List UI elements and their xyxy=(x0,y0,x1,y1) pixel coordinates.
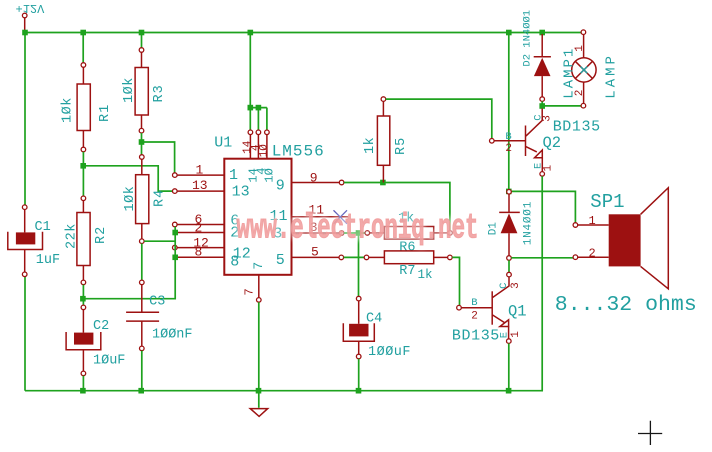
wire R4 bottom to C3 xyxy=(141,244,143,281)
transistor Q2 BD135 xyxy=(490,109,601,177)
pin 11 right (n.c.) xyxy=(270,202,349,225)
wire IC top supply feed xyxy=(250,33,267,131)
diode D2 1N4001 xyxy=(521,10,551,102)
svg-text:8: 8 xyxy=(195,245,203,260)
pin 8 left xyxy=(175,245,240,271)
pin 3 right xyxy=(273,220,344,243)
svg-text:R4: R4 xyxy=(153,189,168,207)
junction D1 top node xyxy=(506,189,512,195)
svg-text:SP1: SP1 xyxy=(590,191,624,213)
svg-text:13: 13 xyxy=(232,183,250,200)
svg-text:13: 13 xyxy=(192,178,208,193)
wire R2/C2 node to IC pins 2-6-8-12 vertical xyxy=(83,259,175,299)
wire trigger/threshold vertical pins 6-2-12-8 xyxy=(174,227,176,259)
wire R5 top to Q2 base xyxy=(386,99,492,138)
capacitor C3 xyxy=(126,280,192,351)
svg-text:Q2: Q2 xyxy=(543,134,562,152)
svg-text:1: 1 xyxy=(196,162,204,177)
svg-text:22k: 22k xyxy=(65,223,80,249)
junction top rail at R3 xyxy=(139,30,145,36)
wire Q2 collector node to lamp pin 2 xyxy=(542,105,581,107)
svg-text:3: 3 xyxy=(510,282,522,289)
junction top rail at IC feed xyxy=(248,30,254,36)
svg-text:LM556: LM556 xyxy=(272,142,325,160)
speaker SP1 xyxy=(555,188,697,317)
wire C4 bottom to rail xyxy=(358,359,360,391)
resistor R2 xyxy=(65,196,109,285)
diode D1 1N4001 xyxy=(487,190,534,261)
svg-text:7: 7 xyxy=(251,262,266,270)
junction Q2 collector node xyxy=(539,103,545,109)
junction top rail at R1 xyxy=(80,30,86,36)
svg-text:2: 2 xyxy=(505,143,512,155)
wire R3 bottom to R4 top xyxy=(141,133,143,155)
junction R1/R2 node xyxy=(80,163,86,169)
pin 10 top xyxy=(259,130,277,183)
wire Q2 emitter down to rail corner xyxy=(541,176,543,391)
pin 12 left xyxy=(173,235,251,262)
svg-text:BD135: BD135 xyxy=(452,328,500,345)
resistor R1 xyxy=(61,33,114,152)
svg-text:D1: D1 xyxy=(487,222,499,236)
svg-text:BD135: BD135 xyxy=(553,119,601,136)
transistor Q1 BD135 xyxy=(452,272,527,344)
wire D1 bottom to Q1 collector xyxy=(508,260,510,272)
resistor R6 xyxy=(365,211,452,255)
op-amp U1 LM556 IC body xyxy=(214,135,325,275)
capacitor C4 xyxy=(343,296,411,360)
svg-text:www.electroniq.net: www.electroniq.net xyxy=(237,209,479,249)
wire R2 bottom to C2 xyxy=(82,285,84,305)
pin 13 left xyxy=(173,178,250,200)
pin 2 left xyxy=(175,220,240,241)
junction pin 2 xyxy=(172,230,178,236)
junction bottom rail Q1 xyxy=(506,388,512,394)
junction pin 8 xyxy=(172,255,178,261)
svg-text:2: 2 xyxy=(195,220,203,235)
pin 7 bottom xyxy=(243,262,266,302)
wire bottom ground rail xyxy=(25,390,543,392)
wire C3 bottom to rail xyxy=(141,351,143,391)
svg-text:8: 8 xyxy=(230,253,239,270)
svg-text:LAMP: LAMP xyxy=(603,53,619,99)
wire D1 node to speaker pin 1 xyxy=(509,191,576,222)
junction R2/C2 node xyxy=(80,296,86,302)
svg-text:2: 2 xyxy=(471,310,478,322)
pin 9 right xyxy=(276,170,344,194)
svg-text:1Ø: 1Ø xyxy=(263,168,277,182)
svg-text:B: B xyxy=(505,131,511,143)
svg-text:9: 9 xyxy=(276,177,285,194)
svg-text:1ØuF: 1ØuF xyxy=(93,353,125,368)
lamp LAMP1 xyxy=(561,30,619,108)
no-connect X marker pin 11 xyxy=(334,210,348,224)
svg-text:C2: C2 xyxy=(93,319,109,334)
pin 14 top xyxy=(242,130,261,183)
svg-text:1Øk: 1Øk xyxy=(122,77,137,103)
svg-text:1: 1 xyxy=(229,167,238,184)
svg-text:C: C xyxy=(498,283,510,289)
svg-text:1: 1 xyxy=(510,331,522,338)
svg-text:1Øk: 1Øk xyxy=(61,97,76,123)
svg-text:1uF: 1uF xyxy=(36,253,60,268)
svg-text:1k: 1k xyxy=(418,268,433,282)
resistor R4 xyxy=(123,155,168,244)
junction pin3/C4 xyxy=(356,230,362,236)
capacitor C1 xyxy=(8,205,60,277)
wire top +12V rail xyxy=(25,32,581,34)
wire Q1 emitter to rail xyxy=(508,343,510,390)
wire C2 bottom to rail xyxy=(82,376,84,391)
ground symbol xyxy=(250,394,268,417)
wire left vertical rail upper (to C1) xyxy=(24,33,26,206)
svg-text:5: 5 xyxy=(276,252,285,269)
svg-text:8...32 ohms: 8...32 ohms xyxy=(555,293,697,317)
svg-text:1: 1 xyxy=(543,165,555,172)
resistor R5 xyxy=(363,97,409,183)
svg-text:1ØØnF: 1ØØnF xyxy=(152,328,193,343)
svg-text:R3: R3 xyxy=(152,84,167,102)
svg-text:9: 9 xyxy=(310,170,318,185)
svg-text:1Ø: 1Ø xyxy=(259,144,271,158)
svg-text:R2: R2 xyxy=(94,226,109,244)
svg-text:1: 1 xyxy=(589,214,596,228)
pin 5 right xyxy=(276,245,344,269)
svg-text:C3: C3 xyxy=(149,295,165,310)
wire D1 bottom to speaker pin 2 xyxy=(511,257,573,259)
wire left vertical rail lower (C1 to bottom) xyxy=(24,276,26,390)
junction bottom rail C2 xyxy=(80,388,86,394)
junction R3/R4 node xyxy=(139,139,145,145)
wire D1 column from top rail xyxy=(508,33,510,190)
svg-text:R7: R7 xyxy=(399,264,415,279)
junction bottom rail ground tap xyxy=(256,388,262,394)
svg-text:1k: 1k xyxy=(363,137,378,154)
pin 4 top xyxy=(250,130,268,175)
svg-text:D2 1N4ØØ1: D2 1N4ØØ1 xyxy=(521,10,533,67)
svg-text:E: E xyxy=(499,332,511,338)
svg-text:1ØØuF: 1ØØuF xyxy=(368,345,411,360)
svg-text:LAMP1: LAMP1 xyxy=(561,47,577,99)
svg-text:+12V: +12V xyxy=(16,1,46,15)
junction R5 bottom xyxy=(380,180,386,186)
resistor R3 xyxy=(122,33,167,134)
junction bottom rail C4 xyxy=(356,388,362,394)
svg-text:Q1: Q1 xyxy=(508,303,527,321)
wire R1 bottom to R2 top xyxy=(82,152,84,196)
svg-text:1Øk: 1Øk xyxy=(123,186,138,212)
svg-text:R1: R1 xyxy=(98,104,113,122)
svg-text:B: B xyxy=(471,297,477,309)
junction IC feed 2 xyxy=(256,105,262,111)
resistor R7 xyxy=(364,251,452,282)
junction IC feed 1 xyxy=(248,105,254,111)
wire pin 9 net to R5 and R6 xyxy=(344,183,450,231)
junction top rail at x=25 xyxy=(22,30,28,36)
wire pin 5 to R7 xyxy=(344,256,365,258)
svg-text:R5: R5 xyxy=(394,137,409,155)
svg-text:1N4ØØ1: 1N4ØØ1 xyxy=(522,201,534,245)
wire R3/R4 node to IC pin 1 xyxy=(142,142,175,173)
wire D2 bottom to Q2 collector node xyxy=(541,101,543,106)
svg-text:C1: C1 xyxy=(35,220,51,235)
svg-text:7: 7 xyxy=(243,288,257,295)
junction bottom rail C3 xyxy=(138,388,144,394)
wire R4 bottom to trigger vertical xyxy=(144,240,175,242)
pin 6 left xyxy=(173,212,240,230)
svg-text:C4: C4 xyxy=(366,312,382,327)
svg-text:2: 2 xyxy=(589,246,596,260)
cursor cross mark xyxy=(638,421,662,445)
pin 1 left xyxy=(173,162,239,184)
svg-text:U1: U1 xyxy=(214,135,232,152)
wire pin 7 to ground rail xyxy=(258,302,260,391)
wire pin 3 to R6 xyxy=(344,232,365,234)
wire C4 column from pin3 junction xyxy=(358,233,360,296)
node +12V supply pin xyxy=(16,1,46,30)
wire R1/R2 node to IC pin 13 xyxy=(83,166,172,191)
capacitor C2 xyxy=(66,305,125,376)
junction top rail at D1 column xyxy=(506,30,512,36)
junction top rail at D2 xyxy=(539,30,545,36)
watermark www.electroniq.net xyxy=(237,209,479,249)
wire R7 to Q1 base xyxy=(452,257,459,307)
